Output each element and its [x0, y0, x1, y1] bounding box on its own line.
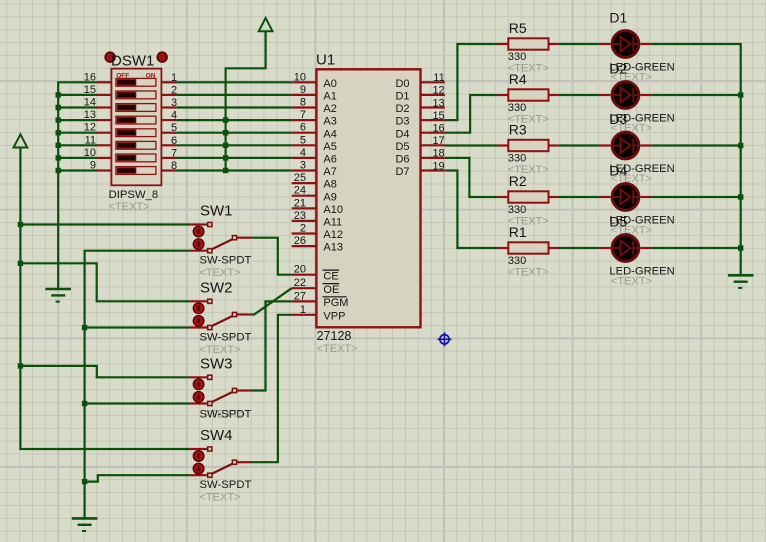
svg-text:1: 1	[171, 72, 177, 84]
switch SW2 SW-SPDT	[190, 299, 252, 329]
R5 text placeholder	[508, 63, 549, 75]
ground (right, LED bus)	[728, 275, 754, 288]
svg-text:D5: D5	[395, 141, 409, 153]
svg-text:SW2: SW2	[200, 279, 233, 296]
svg-text:<TEXT>: <TEXT>	[200, 344, 241, 356]
svg-text:D3: D3	[395, 116, 409, 128]
DSW1 rocker 5	[116, 129, 156, 137]
svg-text:A7: A7	[323, 166, 336, 178]
DSW1 rocker 2	[116, 91, 156, 99]
wire ground bus from DSW1 left pins	[58, 82, 96, 289]
svg-text:25: 25	[294, 172, 306, 184]
wire SW2 throw feed	[20, 263, 190, 301]
svg-text:A8: A8	[323, 179, 336, 191]
svg-text:10: 10	[294, 71, 306, 83]
svg-text:16: 16	[84, 71, 96, 83]
resistor R5	[498, 38, 559, 49]
D2 reference label	[609, 61, 627, 77]
wire top power to address rows	[226, 31, 266, 170]
wire SW1 throw feed	[20, 223, 190, 225]
wire SW1 to CE	[252, 238, 292, 275]
svg-text:1: 1	[300, 304, 306, 316]
wire D5 (pin17) to R3	[445, 144, 498, 146]
DSW1 actuator circle left	[105, 52, 115, 62]
svg-text:R2: R2	[509, 173, 527, 189]
DSW1 actuator circle right	[157, 52, 167, 62]
U1 reference label	[316, 52, 335, 69]
svg-text:D5: D5	[609, 214, 627, 230]
LED D5	[599, 235, 652, 262]
svg-text:A12: A12	[323, 229, 343, 241]
svg-text:D6: D6	[395, 154, 409, 166]
svg-text:15: 15	[84, 84, 96, 96]
DSW1 right pin stubs	[161, 82, 176, 170]
svg-text:330: 330	[508, 255, 526, 267]
D4 value LED-GREEN	[609, 215, 674, 227]
svg-text:D4: D4	[395, 128, 409, 140]
svg-text:SW-SPDT: SW-SPDT	[200, 255, 252, 267]
svg-text:7: 7	[300, 109, 306, 121]
svg-text:D1: D1	[395, 91, 409, 103]
U1 pin name OE with overline	[323, 284, 340, 296]
D3 reference label	[609, 111, 627, 127]
svg-text:12: 12	[432, 85, 444, 97]
svg-text:26: 26	[294, 235, 306, 247]
svg-text:DIPSW_8: DIPSW_8	[109, 189, 159, 201]
LED D3	[599, 132, 652, 159]
origin marker (blue crosshair)	[438, 332, 452, 346]
U1 pin names A0-A13	[323, 78, 343, 254]
wire LED cathode bus	[652, 44, 741, 275]
DSW1 right pin numbers 1-8	[171, 72, 177, 172]
svg-text:D2: D2	[609, 61, 627, 77]
LED D4	[599, 184, 652, 211]
svg-text:D1: D1	[609, 10, 627, 26]
DSW1 left pin numbers 16-9	[84, 71, 96, 171]
D3 value LED-GREEN	[609, 163, 674, 175]
DIP switch DSW1 body	[111, 69, 161, 186]
switch SW3 SW-SPDT	[190, 375, 252, 405]
SW1 text placeholder	[200, 267, 241, 279]
svg-text:13: 13	[84, 109, 96, 121]
svg-text:23: 23	[294, 210, 306, 222]
D1 reference label	[609, 10, 627, 26]
SW2 text placeholder	[200, 344, 241, 356]
D5 value LED-GREEN	[609, 266, 674, 278]
ground (left, under DSW1 bus)	[45, 289, 71, 302]
U1 right pin numbers	[432, 72, 444, 172]
svg-text:14: 14	[84, 97, 96, 109]
svg-text:330: 330	[508, 51, 526, 63]
svg-text:27: 27	[294, 290, 306, 302]
LED D1	[599, 31, 652, 58]
D4 reference label	[609, 163, 627, 179]
D2 value LED-GREEN	[609, 113, 674, 125]
junction dots on pole bus	[82, 325, 87, 485]
wire D4 (pin16) to R4	[445, 95, 498, 133]
R3 reference label	[509, 121, 527, 137]
svg-text:<TEXT>: <TEXT>	[317, 343, 358, 355]
wire power rail to SW throws	[20, 148, 190, 450]
svg-text:21: 21	[294, 197, 306, 209]
SW4 text placeholder	[200, 492, 241, 504]
svg-text:U1: U1	[316, 52, 335, 69]
svg-text:11: 11	[85, 134, 96, 146]
svg-text:PGM: PGM	[323, 297, 348, 309]
svg-text:7: 7	[171, 147, 177, 159]
svg-text:6: 6	[300, 122, 306, 134]
svg-text:4: 4	[171, 110, 177, 122]
svg-text:A13: A13	[323, 242, 343, 254]
svg-text:16: 16	[432, 123, 444, 135]
U1 left pin stubs	[292, 82, 317, 314]
svg-text:27128: 27128	[317, 329, 352, 343]
svg-text:A2: A2	[323, 103, 336, 115]
svg-text:8: 8	[171, 160, 177, 172]
junction dots on power rail	[18, 222, 23, 369]
U1 text placeholder	[317, 343, 358, 355]
DSW1 rocker 4	[116, 116, 156, 124]
SW4 value SW-SPDT	[200, 479, 252, 491]
LED D2	[599, 82, 652, 109]
svg-text:<TEXT>: <TEXT>	[611, 276, 652, 288]
svg-text:15: 15	[432, 110, 444, 122]
svg-text:19: 19	[432, 160, 444, 172]
wires DSW1 to U1 A0-A7	[176, 82, 291, 170]
svg-text:R4: R4	[509, 71, 527, 87]
svg-text:2: 2	[171, 84, 177, 96]
wire SW4 pole branch	[85, 475, 190, 481]
SW2 value SW-SPDT	[200, 331, 252, 343]
R4 text placeholder	[508, 114, 549, 126]
wire SW2 pole branch	[85, 326, 190, 328]
wire R4 to LED	[559, 94, 599, 96]
R5 reference label	[509, 20, 527, 36]
svg-text:A6: A6	[323, 154, 336, 166]
svg-text:R3: R3	[509, 121, 527, 137]
R1 reference label	[509, 224, 527, 240]
svg-text:12: 12	[84, 122, 96, 134]
svg-text:A9: A9	[323, 191, 336, 203]
R4 reference label	[509, 71, 527, 87]
svg-text:A10: A10	[323, 204, 343, 216]
DSW1 value DIPSW_8	[109, 189, 159, 201]
wire SW3 to PGM	[252, 301, 292, 390]
svg-text:<TEXT>: <TEXT>	[200, 492, 241, 504]
R2 reference label	[509, 173, 527, 189]
svg-text:22: 22	[294, 277, 306, 289]
svg-text:A0: A0	[323, 78, 336, 90]
svg-text:13: 13	[432, 97, 444, 109]
svg-text:11: 11	[433, 72, 444, 84]
DSW1 rocker 6	[116, 141, 156, 149]
svg-text:R1: R1	[509, 224, 527, 240]
svg-text:18: 18	[432, 148, 444, 160]
svg-text:A4: A4	[323, 128, 336, 140]
resistor R2	[498, 191, 559, 202]
DSW1 text placeholder	[109, 201, 150, 213]
D1 text placeholder	[611, 72, 652, 84]
switch SW1 SW-SPDT	[190, 222, 252, 252]
svg-text:20: 20	[294, 264, 306, 276]
R2 text placeholder	[508, 216, 549, 228]
svg-text:D0: D0	[395, 78, 409, 90]
SW3 value SW-SPDT	[200, 408, 252, 420]
resistor R3	[498, 140, 559, 151]
R2 value 330	[508, 204, 526, 216]
D2 text placeholder	[611, 123, 652, 135]
resistor R1	[498, 242, 559, 253]
D5 text placeholder	[611, 276, 652, 288]
switch SW4 SW-SPDT	[190, 447, 252, 477]
wire D6 (pin18) to R2	[445, 158, 498, 197]
SW2 reference label	[200, 279, 233, 296]
svg-text:5: 5	[171, 122, 177, 134]
wire R2 to LED	[559, 196, 599, 198]
svg-text:10: 10	[84, 147, 96, 159]
svg-text:R5: R5	[509, 20, 527, 36]
junction dots on top power branch	[223, 117, 228, 173]
wire SW2 to OE (diagonal)	[252, 288, 292, 314]
svg-text:8: 8	[300, 97, 306, 109]
DSW1 rocker 1	[116, 78, 156, 86]
svg-text:SW3: SW3	[200, 355, 233, 372]
wire R1 to LED	[559, 247, 599, 249]
svg-text:D3: D3	[609, 111, 627, 127]
wire R5 to LED	[559, 43, 599, 45]
svg-text:SW4: SW4	[200, 427, 233, 444]
U1 pin name VPP	[323, 310, 345, 322]
U1 pin name CE with overline	[323, 270, 340, 282]
DSW1 left pin stubs	[97, 82, 112, 170]
U1 right pin stubs	[421, 82, 445, 170]
U1 pin names D0-D7	[395, 78, 409, 178]
svg-text:2: 2	[300, 223, 306, 235]
D4 text placeholder	[611, 225, 652, 237]
resistor R4	[498, 89, 559, 100]
svg-text:A5: A5	[323, 141, 336, 153]
wire SW3 throw feed	[20, 366, 190, 377]
svg-text:SW-SPDT: SW-SPDT	[200, 408, 252, 420]
svg-text:SW-SPDT: SW-SPDT	[200, 479, 252, 491]
SW1 reference label	[200, 203, 233, 220]
svg-text:CE: CE	[323, 270, 338, 282]
svg-text:D4: D4	[609, 163, 627, 179]
wire SW3 pole branch	[85, 402, 190, 404]
svg-text:330: 330	[508, 204, 526, 216]
svg-text:D7: D7	[395, 166, 409, 178]
DSW1 OFF/ON labels	[116, 73, 156, 80]
DSW1 rocker 8	[116, 167, 156, 175]
DSW1 rocker 3	[116, 104, 156, 112]
svg-text:SW1: SW1	[200, 203, 233, 220]
wire D7 (pin19) to R1	[445, 171, 498, 249]
R1 value 330	[508, 255, 526, 267]
U1 left pin numbers	[294, 71, 306, 315]
svg-text:3: 3	[300, 160, 306, 172]
SW4 reference label	[200, 427, 233, 444]
U1 value 27128	[317, 329, 352, 343]
svg-text:D2: D2	[395, 103, 409, 115]
power VCC arrow (top)	[259, 18, 273, 31]
svg-text:330: 330	[508, 102, 526, 114]
svg-text:4: 4	[300, 147, 306, 159]
svg-text:5: 5	[300, 134, 306, 146]
svg-text:DSW1: DSW1	[111, 53, 154, 70]
D5 reference label	[609, 214, 627, 230]
svg-text:A3: A3	[323, 116, 336, 128]
R3 text placeholder	[508, 164, 549, 176]
svg-text:330: 330	[508, 153, 526, 165]
ground (bottom, SW pole bus)	[72, 518, 98, 531]
wire SW4 to VPP	[252, 315, 292, 462]
D3 text placeholder	[611, 173, 652, 185]
R1 text placeholder	[508, 267, 549, 279]
svg-text:SW-SPDT: SW-SPDT	[200, 331, 252, 343]
wire D3 (pin15) to R5	[445, 44, 498, 120]
D1 value LED-GREEN	[609, 62, 674, 74]
DSW1 reference label	[111, 53, 154, 70]
svg-text:VPP: VPP	[323, 310, 345, 322]
svg-text:OE: OE	[323, 284, 339, 296]
svg-text:<TEXT>: <TEXT>	[200, 267, 241, 279]
svg-text:9: 9	[90, 160, 96, 172]
R3 value 330	[508, 153, 526, 165]
svg-text:17: 17	[432, 135, 444, 147]
svg-text:6: 6	[171, 135, 177, 147]
svg-text:9: 9	[300, 84, 306, 96]
power VCC arrow (left)	[14, 134, 28, 147]
svg-text:A11: A11	[323, 217, 342, 229]
U1 pin name PGM with overline	[323, 297, 349, 309]
wire R3 to LED	[559, 144, 599, 146]
svg-text:<TEXT>: <TEXT>	[109, 201, 150, 213]
svg-text:<TEXT>: <TEXT>	[508, 267, 549, 279]
IC U1 27128 body	[316, 69, 420, 327]
SW3 reference label	[200, 355, 233, 372]
DSW1 rocker 7	[116, 154, 156, 162]
R5 value 330	[508, 51, 526, 63]
junction dots on cathode bus	[738, 92, 743, 250]
svg-text:A1: A1	[323, 91, 336, 103]
junction dots on ground bus	[56, 92, 61, 173]
svg-text:24: 24	[294, 185, 306, 197]
svg-text:3: 3	[171, 97, 177, 109]
SW1 value SW-SPDT	[200, 255, 252, 267]
R4 value 330	[508, 102, 526, 114]
wire SW pole bus to ground	[85, 251, 190, 519]
